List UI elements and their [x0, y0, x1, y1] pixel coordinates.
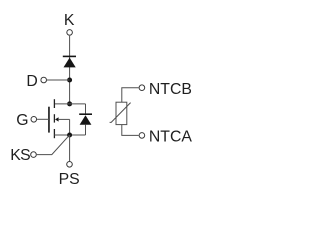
- svg-text:KS: KS: [10, 147, 30, 164]
- svg-text:NTCA: NTCA: [149, 129, 192, 146]
- wire drain lead: [54, 103, 85, 105]
- terminal K: [67, 30, 73, 36]
- node drain junction: [67, 101, 72, 106]
- svg-text:K: K: [64, 12, 75, 29]
- wire gate lead: [37, 118, 49, 120]
- wire D lead: [47, 79, 70, 81]
- terminal D: [41, 77, 47, 83]
- svg-text:NTCB: NTCB: [149, 81, 192, 98]
- body diode: [79, 114, 92, 125]
- terminal NTCB: [139, 85, 145, 91]
- svg-text:D: D: [26, 73, 37, 90]
- terminal NTCA: [139, 133, 145, 139]
- wire KS lead: [37, 135, 70, 154]
- thermistor NTC: [110, 102, 131, 124]
- terminal KS: [31, 152, 37, 158]
- terminal G: [31, 117, 37, 123]
- mosfet Q1: [49, 99, 70, 138]
- wire source lead: [54, 134, 85, 136]
- svg-text:PS: PS: [59, 171, 80, 188]
- terminal PS: [67, 162, 73, 168]
- node D junction: [67, 78, 72, 83]
- node source junction: [67, 133, 72, 138]
- wire NTCA lead: [122, 125, 139, 136]
- svg-text:G: G: [16, 112, 28, 129]
- wire K to node D: [69, 36, 71, 104]
- body diode loop wires: [85, 104, 87, 135]
- diode D1 (top): [63, 56, 76, 67]
- wire PS lead: [69, 135, 71, 161]
- wire NTCB lead: [122, 88, 139, 103]
